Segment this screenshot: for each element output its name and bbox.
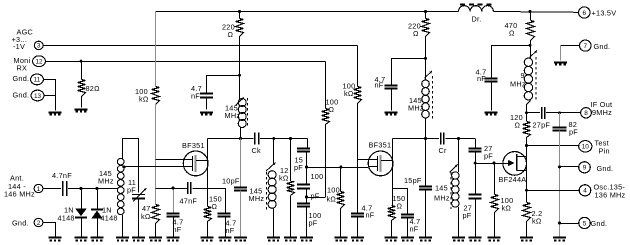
capacitor 27pF IF xyxy=(533,107,551,130)
svg-text:Ω: Ω xyxy=(413,29,419,38)
svg-text:Ω: Ω xyxy=(515,121,521,130)
svg-text:9MHz: 9MHz xyxy=(592,108,612,117)
svg-text:10pF: 10pF xyxy=(222,177,240,186)
svg-text:100: 100 xyxy=(327,185,340,194)
wire nodeB to Moni xyxy=(307,197,326,199)
resistor 82R xyxy=(78,61,101,107)
pin 13 xyxy=(13,90,44,101)
svg-text:kΩ: kΩ xyxy=(327,195,337,204)
svg-text:Gnd.: Gnd. xyxy=(13,74,30,83)
svg-text:RX: RX xyxy=(17,64,28,73)
svg-text:kΩ: kΩ xyxy=(502,204,512,213)
svg-text:kΩ: kΩ xyxy=(279,174,289,183)
ground 10pF xyxy=(234,238,247,241)
svg-text:nF: nF xyxy=(226,226,235,235)
transistor U2 BF351 xyxy=(368,141,393,176)
ground 12k xyxy=(284,238,297,241)
capacitor 4.7nF source1 xyxy=(218,214,237,237)
svg-text:Ω: Ω xyxy=(228,30,234,39)
pin 12 xyxy=(33,56,46,67)
wire test pin xyxy=(525,144,580,147)
wire 47nF to source xyxy=(193,188,208,190)
svg-text:4: 4 xyxy=(583,188,587,195)
pin 8 xyxy=(581,100,613,118)
ground 2.2k xyxy=(520,238,533,241)
node Moni label xyxy=(14,56,31,73)
wire pin5 xyxy=(560,223,579,225)
ground 4.7nF source1 xyxy=(219,238,232,241)
capacitor 4.7nF gate2 bypass xyxy=(351,160,375,237)
resistor 100k stage1 bias upper xyxy=(135,12,160,105)
pin 5 xyxy=(579,217,608,228)
capacitor 100pF lower xyxy=(297,204,321,228)
svg-text:4148: 4148 xyxy=(58,213,75,222)
svg-text:pF: pF xyxy=(569,128,578,137)
svg-text:pF: pF xyxy=(484,152,493,161)
svg-text:MHz: MHz xyxy=(510,80,526,89)
wire antenna to coil tap xyxy=(68,187,118,190)
capacitor 4.7nF antenna xyxy=(52,171,72,196)
wire Moni line xyxy=(46,60,326,63)
wire source2 to bypass xyxy=(393,189,408,215)
wire pin9 xyxy=(560,166,579,168)
wire gate2 stage1 xyxy=(156,159,184,161)
pin 3 xyxy=(34,41,43,50)
svg-text:82Ω: 82Ω xyxy=(86,84,101,93)
ground pins 11/13 xyxy=(49,113,62,115)
wire 470 node xyxy=(491,44,532,47)
resistor 100R Moni xyxy=(322,62,339,198)
svg-text:5: 5 xyxy=(583,220,587,227)
wire pin4 xyxy=(527,190,580,192)
capacitor 4.7nF source2 xyxy=(401,215,420,237)
wire IF to pin8 xyxy=(546,111,580,114)
wire drain bus stage1 xyxy=(208,138,254,140)
ground 82R xyxy=(75,110,88,112)
wire tank bus stage1 xyxy=(239,137,307,140)
capacitor 27pF upper xyxy=(469,144,494,194)
node gate1 tap xyxy=(123,165,126,168)
capacitor 82pF xyxy=(553,113,579,137)
resistor 150R stage2 xyxy=(388,194,406,236)
svg-text:Gnd.: Gnd. xyxy=(597,164,614,173)
wire drain-source lead Q3 xyxy=(526,146,528,202)
capacitor 15pF stage2 xyxy=(404,139,432,237)
pin 6 xyxy=(579,7,617,18)
capacitor 10pF xyxy=(222,139,247,237)
wire nodeA to gate1 xyxy=(307,166,369,169)
svg-text:pF: pF xyxy=(294,163,303,172)
pin 9 xyxy=(579,162,614,173)
svg-text:Cr: Cr xyxy=(439,146,448,155)
pin 11 xyxy=(13,74,44,85)
svg-text:nF: nF xyxy=(477,74,486,83)
pin 7 xyxy=(580,40,611,51)
ground 4.7nF source2 xyxy=(401,238,414,241)
ground 47k xyxy=(149,238,162,241)
ground 150R stage1 xyxy=(201,238,214,241)
svg-text:15pF: 15pF xyxy=(404,176,422,185)
resistor 150R stage1 xyxy=(204,195,222,237)
wire pins 11/13 to ground xyxy=(44,80,56,111)
svg-text:MHz: MHz xyxy=(249,194,265,203)
svg-text:+13.5V: +13.5V xyxy=(592,9,617,18)
choke Dr. xyxy=(459,5,494,24)
svg-text:pF: pF xyxy=(311,192,320,201)
capacitor 4.7nF bias bypass xyxy=(167,187,184,237)
coil L5 145MHz osc xyxy=(434,139,459,237)
resistor 2.2k xyxy=(523,189,543,237)
ground diode left xyxy=(75,238,88,241)
wire gate2 stage2 xyxy=(357,159,368,161)
svg-text:kΩ: kΩ xyxy=(139,95,149,104)
svg-text:11: 11 xyxy=(34,77,41,84)
capacitor Cr xyxy=(439,133,448,156)
capacitor 4.7nF IF decoupling xyxy=(476,46,498,111)
svg-text:pF: pF xyxy=(463,211,472,220)
svg-text:Gnd.: Gnd. xyxy=(591,219,608,228)
wire source to bypass xyxy=(208,189,226,213)
resistor 100k osc gate xyxy=(491,163,514,236)
ground 150R stage2 xyxy=(385,238,398,241)
wire IF line xyxy=(525,111,540,114)
wire decoupling node xyxy=(206,74,241,94)
node AGC label xyxy=(12,28,34,52)
svg-text:9: 9 xyxy=(583,165,587,172)
ground 27pF lower xyxy=(469,238,482,241)
transistor U1 BF351 xyxy=(182,141,208,176)
resistor 220R stage1 xyxy=(222,10,244,99)
svg-text:4.7nF: 4.7nF xyxy=(52,171,72,180)
svg-text:Pin: Pin xyxy=(599,146,610,155)
diode 1N4148 right xyxy=(91,189,118,237)
svg-text:13: 13 xyxy=(34,93,42,100)
ground 4.7nF gate2 xyxy=(351,238,364,241)
ground right bus xyxy=(553,238,566,241)
wire bias node xyxy=(156,188,188,190)
ground 4.7nF IF xyxy=(485,113,498,115)
wire right ground bus xyxy=(558,131,561,237)
wire chain bottom xyxy=(306,207,308,237)
svg-text:Gnd.: Gnd. xyxy=(12,218,29,227)
transistor Q3 BF244A xyxy=(499,152,527,184)
node Ant label xyxy=(4,173,35,198)
capacitor Ck xyxy=(252,133,262,156)
resistor 100k AGC xyxy=(343,46,362,160)
wire L1 top loop to trimmer xyxy=(123,139,139,193)
svg-text:100: 100 xyxy=(311,172,324,181)
resistor 12k xyxy=(279,139,295,237)
ground 4.7nF decoupling1 xyxy=(200,113,213,115)
svg-text:3: 3 xyxy=(37,43,41,50)
wire drain bus stage2 xyxy=(392,137,439,140)
svg-text:47nF: 47nF xyxy=(180,196,198,205)
wire tank to gate1 xyxy=(124,166,183,168)
svg-text:Ω: Ω xyxy=(329,105,335,114)
svg-text:BF351: BF351 xyxy=(182,141,205,150)
svg-text:-1V: -1V xyxy=(13,42,25,51)
capacitor 100pF upper xyxy=(297,172,323,201)
ground L1 xyxy=(116,238,129,241)
capacitor 15pF chain xyxy=(294,149,310,172)
svg-text:2: 2 xyxy=(37,220,41,227)
ground 4.7nF bias xyxy=(167,238,180,241)
coil L4 145MHz xyxy=(408,58,432,138)
capacitor 27pF lower xyxy=(463,195,482,237)
svg-text:10: 10 xyxy=(582,144,590,151)
ground pin7 xyxy=(554,63,567,65)
coil L3 145MHz xyxy=(249,139,277,237)
ground chain xyxy=(300,238,313,241)
capacitor 47nF series xyxy=(180,182,198,205)
wire +13.5V top rail left segment xyxy=(156,11,459,13)
ground 100k osc gate xyxy=(488,238,501,241)
svg-text:Ω: Ω xyxy=(397,202,403,211)
ground trimmer xyxy=(132,238,145,241)
svg-text:146 MHz: 146 MHz xyxy=(4,190,35,199)
svg-text:pF: pF xyxy=(127,186,136,195)
ground L5 xyxy=(452,238,465,241)
svg-text:12: 12 xyxy=(35,59,43,66)
wire 100k to gate2 node xyxy=(155,104,157,188)
svg-text:kΩ: kΩ xyxy=(141,212,151,221)
svg-text:nF: nF xyxy=(375,81,384,90)
resistor 470R xyxy=(505,10,535,45)
svg-text:6: 6 xyxy=(583,10,587,17)
wire chain top xyxy=(307,139,309,148)
pin 1 xyxy=(34,184,43,193)
trimmer 11pF xyxy=(127,178,146,236)
resistor 220R stage2 xyxy=(408,10,430,58)
wire pin2 ground xyxy=(43,223,56,237)
wire Cr to divider xyxy=(446,137,476,140)
ground pin2 xyxy=(49,238,62,241)
resistor 47k xyxy=(141,188,160,236)
svg-text:MHz: MHz xyxy=(434,194,450,203)
svg-text:Ω: Ω xyxy=(509,29,515,38)
ground 100k gate leak xyxy=(334,238,347,241)
svg-text:nF: nF xyxy=(173,225,182,234)
svg-text:8: 8 xyxy=(584,110,588,117)
svg-text:27pF: 27pF xyxy=(533,121,551,130)
svg-text:nF: nF xyxy=(191,92,200,101)
wire +13.5V top rail right segment xyxy=(494,11,579,14)
wire chain nodeA xyxy=(305,152,308,184)
pin 10 xyxy=(579,139,610,156)
resistor 120R xyxy=(510,113,531,146)
wire AGC line xyxy=(43,45,357,47)
capacitor 4.7nF decoupling2 xyxy=(375,75,398,111)
svg-text:Gnd.: Gnd. xyxy=(13,91,30,100)
svg-text:MHz: MHz xyxy=(408,104,424,113)
wire antenna xyxy=(43,188,61,190)
svg-text:pF: pF xyxy=(309,219,318,228)
svg-text:136 MHz: 136 MHz xyxy=(595,190,626,199)
wire decoupling node2 xyxy=(391,57,427,85)
coil L6 9MHz xyxy=(510,45,537,112)
ground 15pF stage2 xyxy=(419,238,432,241)
svg-text:Dr.: Dr. xyxy=(472,15,482,24)
wire chain nodeB xyxy=(305,188,308,203)
pin 2 xyxy=(12,218,43,227)
svg-text:nF: nF xyxy=(410,225,419,234)
wire drain-source lead stage1 xyxy=(207,139,209,207)
resistor 100k gate leak xyxy=(327,167,345,236)
svg-text:MHz: MHz xyxy=(225,111,241,120)
coil L1 145MHz xyxy=(98,158,124,236)
ground L3 xyxy=(267,238,280,241)
wire pin7 ground xyxy=(560,46,579,61)
svg-text:MHz: MHz xyxy=(98,177,114,186)
svg-text:nF: nF xyxy=(366,210,375,219)
capacitor 4.7nF decoupling1 xyxy=(191,84,213,110)
ground diode right xyxy=(91,238,104,241)
diode 1N4148 left xyxy=(58,189,88,237)
ground 4.7nF decoupling2 xyxy=(385,113,398,115)
svg-text:kΩ: kΩ xyxy=(532,217,542,226)
wire divider drop xyxy=(475,139,477,148)
svg-text:Ω: Ω xyxy=(212,202,218,211)
svg-text:kΩ: kΩ xyxy=(344,89,354,98)
svg-text:1: 1 xyxy=(37,186,41,193)
pin 4 xyxy=(579,182,625,199)
svg-text:145: 145 xyxy=(435,184,448,193)
svg-text:4148: 4148 xyxy=(101,213,118,222)
svg-text:Gnd.: Gnd. xyxy=(594,42,611,51)
wire divider to gate xyxy=(475,162,508,165)
wire drain-source lead stage2 xyxy=(392,139,394,206)
svg-text:BF351: BF351 xyxy=(369,141,392,150)
coil L2 145MHz xyxy=(225,98,248,139)
svg-text:Ck: Ck xyxy=(252,146,262,155)
svg-text:7: 7 xyxy=(584,43,588,50)
svg-text:BF244A: BF244A xyxy=(499,175,527,184)
